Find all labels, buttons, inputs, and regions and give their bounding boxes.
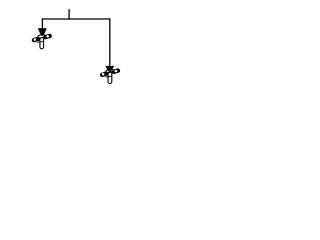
right wing [43, 33, 53, 40]
right wing hole [46, 35, 49, 38]
wire: horizontal bracket [42, 18, 111, 20]
cylinder body [40, 37, 44, 49]
wire: top stub [68, 9, 70, 19]
wing nut icon (left) [31, 33, 52, 49]
background [0, 0, 150, 95]
wire: left drop [41, 18, 43, 28]
arrowhead right [105, 66, 114, 72]
wire: right drop [109, 18, 111, 66]
nut bottom edge across cylinder [37, 41, 44, 44]
wing nut icon (right) [99, 68, 120, 84]
left wing [31, 36, 41, 43]
left wing hole [34, 38, 37, 41]
top ellipse [38, 34, 45, 38]
arrowhead left [38, 28, 47, 36]
